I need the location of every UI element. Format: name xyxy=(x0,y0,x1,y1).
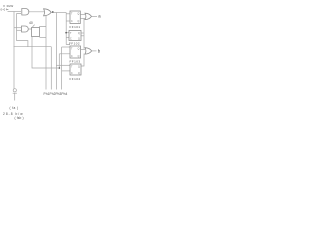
oscillator circle xyxy=(13,89,16,92)
svg-text:( fa ): ( fa ) xyxy=(10,106,19,110)
svg-text:Q: Q xyxy=(78,21,80,23)
junction dot y68 xyxy=(59,67,61,69)
wire FF input bus x66.2 xyxy=(66,13,70,45)
wire x84 lower vertical from FF4 xyxy=(81,54,84,67)
wire feedback vertical x46 xyxy=(45,15,47,89)
svg-text:Q: Q xyxy=(78,56,80,58)
wire phase line x51.3 xyxy=(50,47,52,90)
wire B2 down elbow xyxy=(32,37,59,69)
svg-text:C: C xyxy=(71,21,73,23)
svg-text:Q: Q xyxy=(78,73,80,75)
box B2 xyxy=(32,28,40,37)
flip-flop FF1 xyxy=(70,11,80,24)
wire FF3 input bottom via x59.3 xyxy=(59,54,70,68)
svg-text:FF103: FF103 xyxy=(70,59,81,63)
gate G2 OR xyxy=(44,9,52,16)
svg-text:T: T xyxy=(71,49,73,51)
wire phase line x56.4 xyxy=(55,13,57,90)
svg-text:( fsb ): ( fsb ) xyxy=(15,116,24,120)
wire FF2 input bottom xyxy=(66,37,69,39)
wire G3 output xyxy=(28,28,31,30)
wire FF1 Q to G4 xyxy=(80,14,85,16)
wire phase line x61.6 xyxy=(61,47,63,90)
wire G3 input top xyxy=(14,27,22,29)
svg-text:T: T xyxy=(71,67,73,69)
wire FF1 input top xyxy=(66,13,70,15)
svg-text:40: 40 xyxy=(29,21,33,25)
svg-text:a: a xyxy=(98,13,101,18)
wire G4 output xyxy=(92,15,98,17)
wire FF1 Qbar to G4 xyxy=(80,18,85,20)
svg-text:FF102: FF102 xyxy=(69,41,80,45)
wire G1 output xyxy=(28,11,44,13)
gate G5 OR xyxy=(85,48,92,54)
oscillator bar xyxy=(13,92,17,94)
gate G4 OR xyxy=(85,13,92,19)
flip-flop FF2 xyxy=(69,31,81,41)
wire G2 output xyxy=(52,12,67,14)
svg-text:Q: Q xyxy=(78,49,80,51)
wire G5 output xyxy=(92,50,97,52)
svg-text:FF101: FF101 xyxy=(70,25,81,29)
svg-text:Q: Q xyxy=(78,39,80,41)
svg-text:Q: Q xyxy=(78,67,80,69)
box B2 set arrow xyxy=(32,25,34,28)
gate G1 AND xyxy=(22,9,29,16)
wire x84 inter-gate vertical xyxy=(83,19,85,49)
svg-text:T: T xyxy=(70,33,72,35)
wire long horizontal y46.7 xyxy=(14,46,52,48)
wire FF3 input top xyxy=(62,46,70,48)
wire elbow y40.6 xyxy=(17,41,28,47)
junction dot xyxy=(52,11,54,13)
wire FF4 input bottom xyxy=(62,70,70,72)
svg-text:Ph1Ph2Ph3Ph4: Ph1Ph2Ph3Ph4 xyxy=(44,92,68,96)
wire input horizontal xyxy=(8,11,22,13)
wire left bus V2 xyxy=(17,14,22,41)
wire FF2 Q stub xyxy=(81,32,84,34)
gate G3 AND xyxy=(22,26,29,32)
svg-text:b: b xyxy=(98,49,101,54)
flip-flop FF3 xyxy=(70,46,81,58)
oscillator lead down xyxy=(14,93,16,100)
flip-flop FF4 xyxy=(70,64,81,75)
junction dot FF2 input xyxy=(65,32,67,34)
svg-text:T: T xyxy=(71,14,73,16)
wire FF2 Qbar stub xyxy=(81,35,84,37)
wire FF3 Q to G5 xyxy=(81,49,86,51)
wire FF2 input top xyxy=(66,32,69,34)
wire B2 Q to phase line xyxy=(40,37,47,39)
wire FF4 input top xyxy=(56,64,70,66)
wire left bus V1 xyxy=(13,12,15,90)
wire feedback elbow to box B2 xyxy=(40,26,47,29)
svg-text:FF104: FF104 xyxy=(70,77,81,81)
svg-text:Q: Q xyxy=(78,14,80,16)
wire FF1 input bottom xyxy=(66,20,70,22)
svg-text:Q: Q xyxy=(78,33,80,35)
wire G3 input bottom xyxy=(17,29,22,31)
svg-text:0–0 ⊢: 0–0 ⊢ xyxy=(1,8,9,12)
